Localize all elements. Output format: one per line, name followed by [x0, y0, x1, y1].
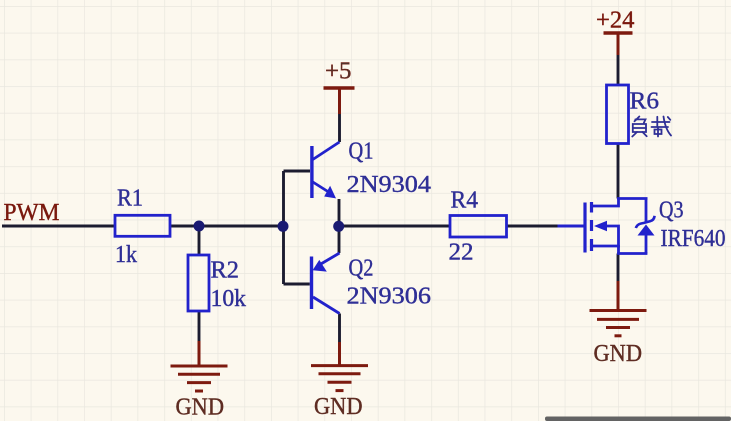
svg-text:PWM: PWM	[4, 200, 60, 226]
svg-text:R4: R4	[451, 188, 479, 214]
svg-text:+5: +5	[325, 59, 352, 85]
svg-text:10k: 10k	[211, 286, 247, 312]
svg-text:IRF640: IRF640	[661, 226, 726, 252]
svg-text:2N9306: 2N9306	[347, 284, 432, 310]
svg-text:1k: 1k	[115, 242, 137, 268]
svg-text:Q2: Q2	[349, 256, 374, 282]
svg-text:GND: GND	[594, 341, 643, 367]
svg-text:R2: R2	[211, 258, 240, 284]
svg-text:Q3: Q3	[659, 198, 684, 224]
svg-text:R1: R1	[117, 186, 143, 212]
svg-text:GND: GND	[176, 395, 225, 421]
svg-text:GND: GND	[314, 394, 363, 420]
svg-text:+24: +24	[596, 8, 635, 34]
svg-text:Q1: Q1	[349, 139, 374, 165]
svg-text:R6: R6	[630, 89, 660, 115]
svg-text:22: 22	[449, 240, 474, 266]
svg-text:2N9304: 2N9304	[347, 172, 432, 198]
